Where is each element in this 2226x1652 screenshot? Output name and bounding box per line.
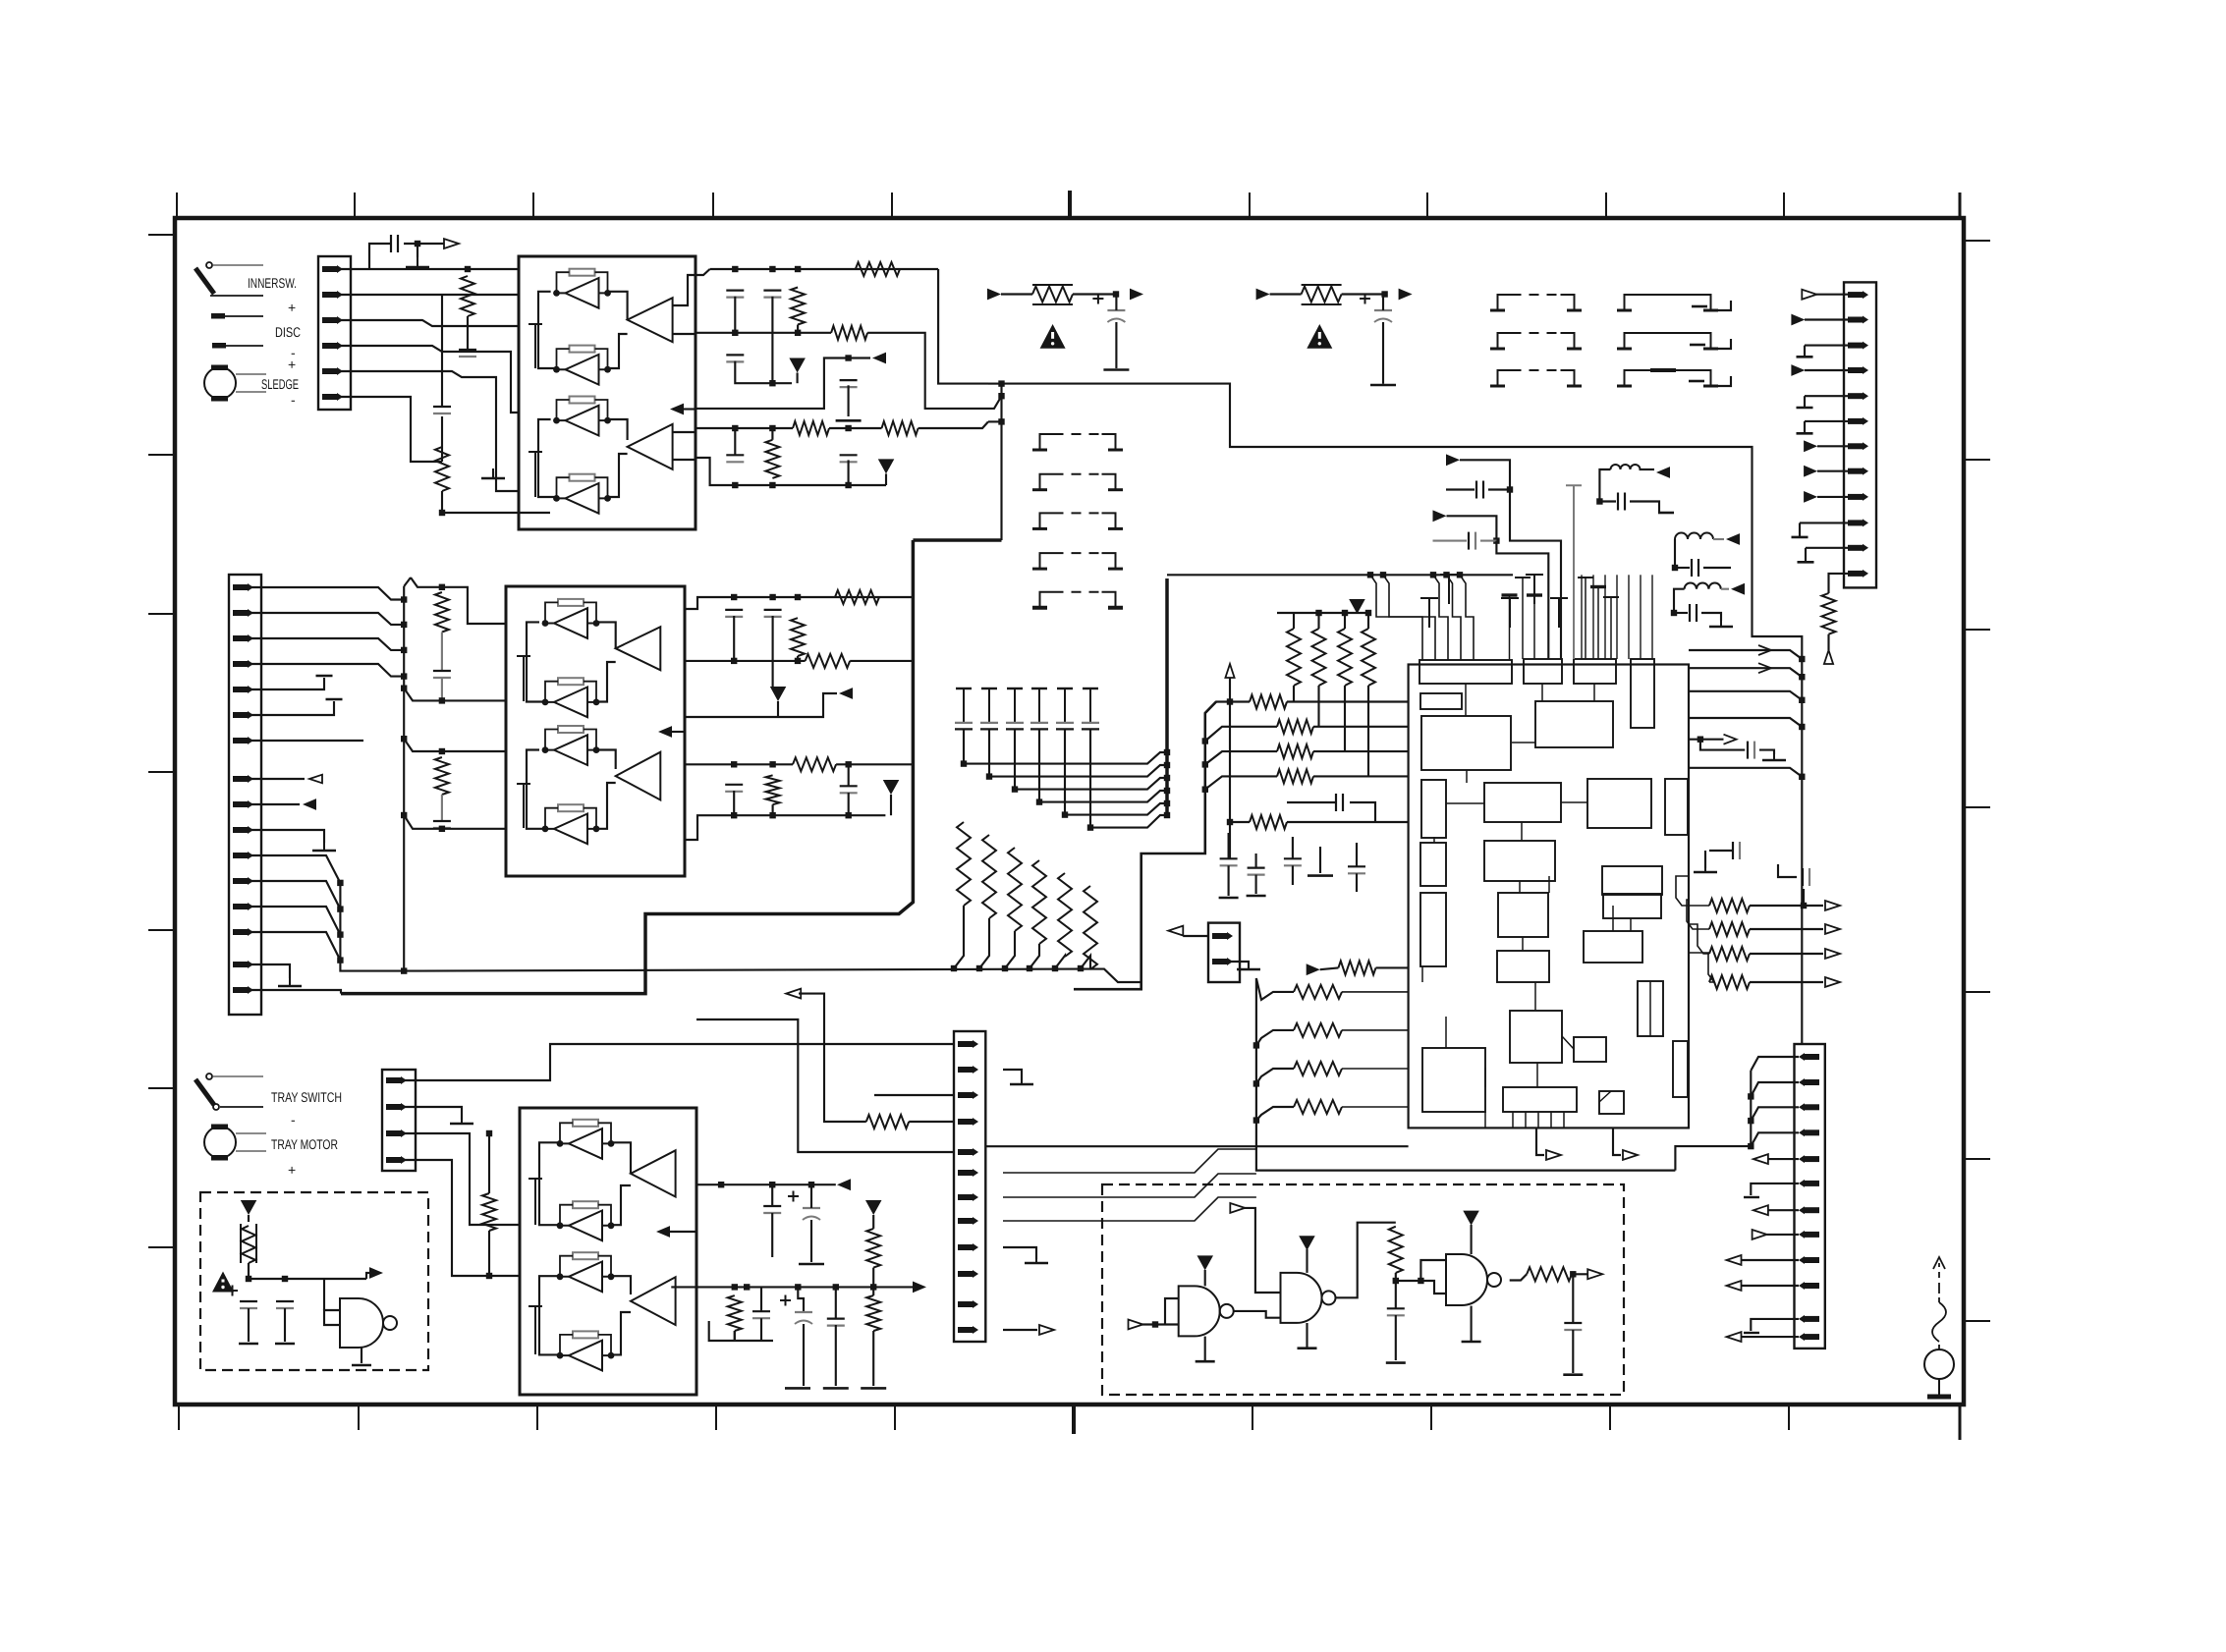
capacitor C36 (752, 1311, 770, 1318)
junction (439, 826, 445, 832)
frame tick (354, 193, 356, 218)
junction (845, 425, 851, 431)
wire (608, 454, 628, 497)
wire (538, 419, 557, 497)
connector CN5 (954, 1031, 985, 1342)
resistor R11 (835, 590, 879, 604)
wire (1255, 875, 1257, 894)
wire (874, 1094, 954, 1096)
ground (1797, 356, 1813, 358)
pin (1848, 493, 1868, 501)
wire (340, 268, 369, 270)
wire (848, 764, 850, 786)
junction (1113, 291, 1119, 297)
wire (1750, 928, 1823, 930)
wire (1630, 918, 1632, 931)
junction (998, 380, 1004, 386)
wire (1342, 1106, 1409, 1108)
arrow (1656, 467, 1670, 478)
wire (1541, 684, 1543, 701)
capacitor C3 (433, 407, 451, 413)
wire (771, 297, 773, 384)
junction (401, 647, 407, 653)
wire (249, 1263, 366, 1279)
capacitor C2 (981, 688, 997, 689)
wire (988, 729, 990, 776)
buffer A10 (557, 1201, 615, 1240)
wire (324, 1310, 340, 1325)
junction (1380, 572, 1386, 578)
ground (352, 1364, 371, 1367)
wire (284, 1308, 286, 1342)
arrow in (837, 1179, 851, 1190)
wire (1709, 850, 1733, 852)
wire (829, 427, 882, 429)
junction (1570, 1271, 1576, 1277)
resistor R2 (982, 835, 996, 918)
level adjust resistor (1302, 285, 1342, 304)
ic block B2 (1524, 659, 1562, 684)
pin (233, 711, 253, 719)
ground (312, 843, 336, 851)
wire (1287, 700, 1409, 702)
junction (1227, 819, 1233, 825)
wire (1382, 295, 1384, 311)
wire (685, 597, 734, 609)
buffer A5 (542, 599, 600, 638)
junction (1036, 798, 1042, 804)
motor TRAY (204, 1125, 266, 1161)
pin (1799, 1282, 1819, 1290)
wire (909, 1121, 954, 1123)
wire (1750, 953, 1823, 955)
ground (836, 419, 862, 422)
junction (731, 761, 737, 767)
arrow (1724, 735, 1737, 744)
wire (1640, 468, 1655, 470)
resistor R9 (435, 592, 449, 633)
wire (835, 1287, 837, 1318)
arrow in (1230, 1203, 1245, 1213)
resistor R3 (1008, 848, 1022, 931)
wire (872, 1268, 874, 1288)
wire (442, 491, 550, 513)
wire (1055, 956, 1065, 968)
wire (760, 1287, 762, 1311)
wire (1689, 718, 1802, 727)
junction (415, 241, 420, 247)
level adjust resistor (1032, 285, 1073, 304)
wire (1229, 702, 1231, 859)
jumper J8 (1032, 474, 1123, 490)
wire (1421, 966, 1423, 982)
pin (958, 1066, 978, 1074)
jumper J2 (1490, 333, 1582, 349)
wire (836, 763, 913, 765)
arrow in (987, 289, 1001, 301)
wire (1000, 384, 1002, 540)
wire (685, 693, 837, 717)
wire (488, 1231, 490, 1276)
wire (1510, 1274, 1528, 1280)
wire (1704, 851, 1706, 868)
junction (795, 594, 801, 600)
pin (233, 800, 253, 808)
wire (772, 804, 774, 815)
capacitor C39 (1387, 1308, 1405, 1315)
frame tick (1964, 806, 1990, 808)
wire (1287, 821, 1408, 823)
wire (1805, 318, 1848, 320)
wire (250, 855, 340, 883)
power VDD (241, 1200, 256, 1215)
svg-text:+: + (288, 300, 296, 315)
junction (401, 686, 407, 691)
wire (1750, 905, 1823, 907)
wire (250, 678, 324, 689)
pin (958, 1326, 978, 1334)
terminal (212, 343, 226, 349)
pin (322, 342, 343, 350)
wire (1599, 500, 1616, 502)
resistor R16 (1294, 985, 1342, 999)
capacitor C10 (1092, 294, 1125, 323)
wire (1002, 384, 1690, 447)
arrow up (1225, 664, 1234, 678)
junction (731, 658, 737, 664)
wire (1317, 686, 1319, 727)
wire (1751, 1082, 1799, 1096)
wire (1751, 1184, 1799, 1195)
wire (1751, 1107, 1799, 1121)
junction (1748, 1093, 1753, 1099)
wire (441, 295, 443, 407)
capacitor C16 (1550, 598, 1568, 628)
pin (1848, 392, 1868, 400)
wire (250, 740, 363, 742)
wire (685, 815, 885, 840)
wire (248, 1215, 250, 1222)
wire (938, 269, 988, 384)
buffer A11 (557, 1252, 615, 1292)
wire (250, 830, 324, 843)
wire (1806, 547, 1848, 549)
pin (958, 1118, 978, 1126)
capacitor C8 (840, 455, 858, 462)
ground (1798, 561, 1814, 564)
junction (1799, 774, 1805, 780)
pin (1848, 417, 1868, 425)
pin (233, 583, 253, 591)
wire (538, 292, 557, 368)
wire (735, 361, 772, 384)
wire (1484, 1112, 1486, 1128)
frame tick (1964, 629, 1990, 631)
resistor R31 (1389, 1227, 1403, 1273)
bus wire (1074, 702, 1216, 990)
ground (1219, 897, 1239, 900)
wire (248, 1308, 250, 1342)
wire (1496, 541, 1548, 659)
wire (1376, 966, 1409, 968)
wire (1718, 339, 1731, 349)
wire (734, 1331, 736, 1341)
frame tick (1959, 193, 1962, 218)
wire (1561, 801, 1587, 803)
junction (1507, 486, 1513, 492)
wire (417, 244, 418, 257)
junction (1152, 1321, 1158, 1327)
ic block B21 (1574, 1037, 1606, 1062)
wire (1700, 740, 1745, 750)
pin (958, 1091, 978, 1099)
junction (439, 510, 445, 516)
wire (771, 1213, 773, 1257)
wire (1183, 935, 1208, 937)
wire (596, 783, 616, 829)
wire (369, 244, 391, 269)
wire (611, 1276, 631, 1294)
arrow (1753, 1230, 1767, 1239)
wire (1342, 1029, 1409, 1031)
junction (1596, 498, 1602, 504)
wire (1256, 978, 1294, 1000)
resistor R12 (1277, 720, 1313, 734)
junction (1164, 800, 1170, 806)
junction (486, 1273, 492, 1279)
wire (1342, 991, 1409, 993)
junction (1002, 965, 1008, 971)
wire (1336, 1223, 1396, 1298)
wire (696, 1019, 954, 1152)
pin (1799, 1315, 1819, 1323)
wire (1089, 729, 1091, 827)
ground (1386, 1361, 1406, 1364)
warning triangle (1307, 324, 1332, 349)
wire (366, 1273, 369, 1279)
connector CN4 (382, 1070, 416, 1171)
junction (732, 482, 738, 488)
bus wire (913, 538, 1001, 542)
junction (769, 594, 775, 600)
wire (1519, 881, 1521, 893)
junction (732, 266, 738, 272)
wire (989, 765, 1167, 777)
resistor R18 (1294, 1062, 1342, 1075)
frame tick (536, 1404, 538, 1430)
wire (1640, 575, 1642, 659)
wire (340, 371, 519, 491)
wire (1827, 634, 1829, 650)
op-amp U2B (616, 752, 661, 800)
wire (797, 325, 799, 333)
wire (1038, 729, 1040, 801)
wire (405, 1160, 520, 1276)
warning triangle (212, 1272, 234, 1293)
stub (529, 1179, 542, 1225)
junction (998, 393, 1004, 399)
wire (1572, 1330, 1574, 1373)
wire (835, 1325, 837, 1386)
ground (799, 1263, 824, 1266)
arrow (1039, 1325, 1054, 1335)
arrow in (1446, 454, 1460, 466)
wire (411, 578, 506, 624)
junction (1381, 291, 1387, 297)
bus wire (341, 540, 913, 994)
wire (1651, 575, 1653, 659)
wire (1817, 445, 1848, 447)
pin (1799, 1231, 1819, 1239)
junction (769, 482, 775, 488)
frame tick (1430, 1404, 1432, 1430)
frame tick (532, 193, 534, 218)
ground (1462, 1341, 1481, 1344)
wire (527, 750, 545, 829)
wire (1471, 1306, 1473, 1342)
wire (1293, 613, 1295, 629)
pin (233, 609, 253, 617)
ground (1792, 536, 1809, 539)
wire (1205, 751, 1277, 764)
junction (1799, 674, 1805, 680)
frame tick (1788, 1404, 1790, 1430)
resistor R9 (1338, 629, 1352, 686)
wire (1701, 613, 1721, 621)
wire (1447, 575, 1462, 660)
ic block B1 (1419, 660, 1512, 684)
buffer A6 (542, 678, 600, 717)
wire (1674, 539, 1676, 568)
ground (1744, 1332, 1759, 1334)
resistor R28 (866, 1229, 880, 1268)
wire (760, 1318, 762, 1341)
junction (833, 1284, 839, 1290)
motor SLEDGE (204, 365, 266, 402)
connector CN1 (318, 256, 351, 410)
power VDD (878, 459, 895, 473)
junction (986, 773, 992, 779)
power VDD (883, 780, 900, 795)
wire (1687, 900, 1709, 929)
op-amp U4A (631, 1150, 676, 1196)
capacitor C12 (1420, 598, 1438, 628)
ground (1103, 368, 1129, 371)
wire (1721, 588, 1729, 590)
wire (1742, 1259, 1800, 1261)
nand N4 (1446, 1254, 1501, 1305)
inductor L3 (1685, 583, 1721, 589)
ground (450, 1116, 473, 1124)
junction (1253, 1042, 1259, 1048)
wire (527, 622, 545, 701)
junction (1315, 610, 1321, 616)
wire (1778, 864, 1797, 877)
wire (1030, 944, 1039, 968)
ic box U2 (506, 586, 685, 876)
wire (872, 1331, 874, 1386)
pin (1212, 958, 1233, 965)
junction (1052, 965, 1058, 971)
wire (771, 1184, 773, 1206)
junction (845, 482, 851, 488)
pin (386, 1103, 407, 1111)
wire (404, 739, 506, 751)
resistor R7 (1287, 629, 1301, 686)
wire (1142, 1323, 1179, 1325)
wire (867, 333, 982, 409)
wire (340, 294, 519, 296)
pin (1799, 1129, 1819, 1136)
junction (769, 425, 775, 431)
wire (1536, 1063, 1538, 1087)
ic box U4 (520, 1108, 696, 1395)
wire (1805, 548, 1807, 563)
junction (1202, 761, 1208, 767)
wire (1014, 729, 1016, 789)
frame tick (712, 193, 714, 218)
frame tick (178, 1404, 180, 1430)
capacitor C11 (1360, 294, 1392, 323)
wire (1750, 981, 1823, 983)
junction (732, 1284, 738, 1290)
buffer A12 (557, 1331, 615, 1370)
wire (1356, 843, 1358, 866)
jumper bold segment (1650, 368, 1676, 372)
junction (1253, 1080, 1259, 1086)
wire (1460, 460, 1510, 489)
resistor R22 (1709, 922, 1750, 936)
resistor R32 (1527, 1267, 1572, 1281)
capacitor C1 (956, 688, 972, 689)
junction (401, 736, 407, 742)
ic block B17 (1420, 893, 1446, 966)
ground (823, 1387, 849, 1390)
ground (1298, 1347, 1317, 1349)
pin (233, 634, 253, 642)
junction (1748, 1118, 1753, 1124)
wire (1003, 1197, 1256, 1221)
arrow up (1824, 650, 1833, 664)
wire (1768, 1209, 1799, 1211)
wire (954, 906, 964, 968)
arrow in (1129, 1320, 1143, 1330)
op-amp U1A (628, 298, 673, 342)
junction (246, 1276, 251, 1282)
jumper J4 (1617, 295, 1718, 310)
junction (1799, 697, 1805, 703)
svg-text:TRAY MOTOR: TRAY MOTOR (271, 1136, 338, 1152)
frame tick (148, 234, 175, 236)
wire (1395, 1315, 1397, 1360)
wire (1445, 1017, 1447, 1048)
wire (1484, 1068, 1486, 1087)
ground (275, 1343, 295, 1346)
pin (386, 1129, 407, 1137)
frame tick (148, 929, 175, 931)
wire (369, 268, 468, 270)
junction (1672, 565, 1678, 571)
wire (1292, 865, 1294, 885)
wire (250, 990, 341, 994)
wire (1003, 1329, 1037, 1331)
wire (1313, 726, 1409, 728)
arrow (1825, 924, 1840, 934)
ground (1690, 344, 1705, 347)
wire (797, 656, 799, 661)
wire (250, 638, 404, 650)
resistor R1 (461, 276, 474, 316)
